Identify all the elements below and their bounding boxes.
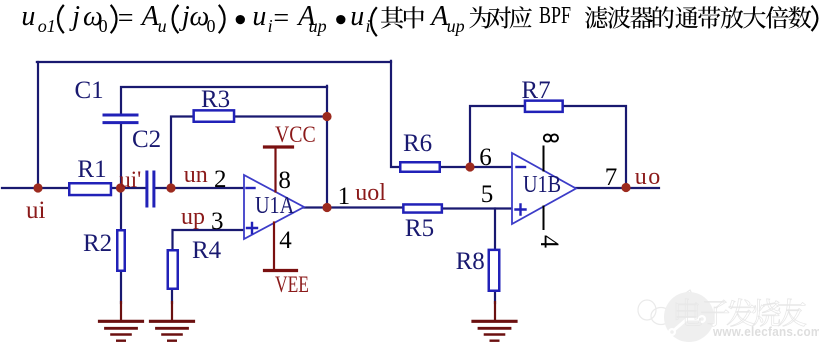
- wire: U1A output to R5 (node uo1): [303, 206, 403, 208]
- pin 4 (U1B, rotated): [536, 235, 562, 248]
- junction node uo (U1B output): [621, 183, 630, 192]
- label C2: [132, 127, 161, 152]
- wire: top rail: [37, 61, 391, 63]
- wire: drop from top rail to R6: [391, 61, 399, 167]
- U1B pin 4 stem: [543, 207, 545, 230]
- resistor R2: [117, 230, 125, 271]
- watermark url text: [713, 325, 819, 338]
- label VCC: [275, 123, 316, 146]
- node label ui: [26, 198, 45, 223]
- wire: R8 bottom to ground: [494, 291, 496, 303]
- label R4: [192, 238, 221, 263]
- wire: ui' node up to C1: [120, 124, 122, 189]
- pin 5: [481, 182, 494, 207]
- label R1: [77, 157, 106, 182]
- label U1A: [255, 194, 294, 218]
- label R8: [456, 249, 485, 274]
- ground below R4: [151, 321, 194, 340]
- op-amp U1A triangle: [244, 175, 304, 239]
- wire: up node to U1A non-inverting input: [173, 230, 245, 250]
- label R2: [83, 231, 112, 256]
- VCC power symbol: [265, 147, 293, 192]
- wire: R5 to U1B non-inverting input: [442, 207, 513, 209]
- capacitor C2 (vertical plates): [147, 172, 154, 206]
- resistor R5: [403, 204, 442, 212]
- label R5: [405, 216, 434, 241]
- VEE power symbol: [265, 223, 297, 271]
- node label uol: [355, 181, 386, 205]
- resistor R6: [400, 162, 440, 172]
- wire: R7 right to U1B output drop: [563, 106, 626, 188]
- wire: un node riser to R3: [171, 117, 193, 190]
- watermark: elecfans logo (faint): [638, 290, 696, 325]
- pin 4 (U1A): [279, 228, 292, 253]
- label R7: [521, 78, 550, 103]
- label U1B: [523, 173, 561, 197]
- resistor R1: [69, 183, 111, 195]
- formula: u_o1(jw0) = Au(jw0).ui = Aup.ui (qizhong...): [21, 3, 35, 31]
- wire: node 6 riser to R7: [470, 106, 525, 168]
- junction node 6: [465, 162, 474, 171]
- wire: input ui horizontal: [2, 187, 68, 189]
- ground below R8: [473, 321, 516, 340]
- wire: branch down to R8: [494, 209, 496, 251]
- pin 1: [338, 184, 351, 209]
- formula parentheses and bullets: [58, 5, 817, 36]
- wire: R1 to ui' node: [112, 187, 146, 189]
- junction node uo1 (U1A output): [322, 203, 331, 212]
- pin 3: [211, 209, 224, 234]
- resistor R7: [525, 101, 563, 112]
- node label uo: [635, 165, 662, 189]
- node label un: [184, 163, 208, 187]
- U1B pin 8 stem with infinity mark: [544, 134, 559, 170]
- pin 2: [214, 167, 227, 192]
- pin 6: [479, 145, 492, 170]
- label C1: [75, 78, 104, 103]
- node label up: [181, 205, 205, 229]
- node label ui': [119, 168, 141, 191]
- formula Chinese text: [381, 6, 811, 29]
- capacitor C1 (horizontal plates): [104, 115, 137, 123]
- wire: ui' node down to R2: [120, 188, 122, 230]
- wire: riser from ui node to top rail: [37, 62, 39, 189]
- junction node ui': [116, 183, 125, 192]
- wire: R4 bottom to ground: [171, 289, 173, 303]
- wire: R3 right side to feedback line: [234, 115, 327, 117]
- junction node ui: [33, 183, 42, 192]
- resistor R4: [168, 250, 178, 289]
- wire: R2 bottom to ground: [120, 271, 122, 303]
- label R6: [403, 131, 432, 156]
- junction node un: [166, 183, 175, 192]
- ground below R2: [100, 321, 143, 340]
- wire: C1 top plate to feedback corner: [121, 87, 327, 114]
- resistor R8: [489, 250, 500, 291]
- wire: R6 to U1B inverting input (node 6): [440, 166, 512, 168]
- pin 8: [278, 168, 291, 193]
- pin 7: [605, 165, 618, 190]
- op-amp U1B triangle: [512, 153, 576, 224]
- label VEE: [275, 273, 309, 296]
- junction node R3/C1 feedback: [322, 112, 331, 121]
- wire: feedback drop to U1A output node: [326, 86, 328, 208]
- label R3: [201, 87, 230, 112]
- wire: C2 to U1A inverting input (through un node): [155, 187, 244, 189]
- wire: U1B output to uo: [575, 187, 659, 189]
- resistor R3: [194, 110, 234, 121]
